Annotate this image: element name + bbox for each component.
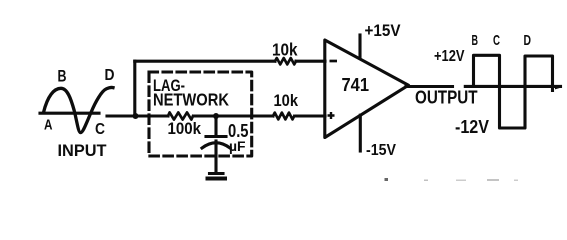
svg-text:10k: 10k: [274, 92, 299, 110]
svg-text:-12V: -12V: [455, 117, 489, 137]
svg-text:C: C: [493, 32, 500, 49]
svg-text:10k: 10k: [272, 40, 298, 60]
svg-text:µF: µF: [229, 138, 246, 154]
svg-text:741: 741: [342, 74, 370, 95]
svg-text:INPUT: INPUT: [58, 142, 107, 160]
svg-text:-15V: -15V: [366, 142, 397, 159]
svg-text:OUTPUT: OUTPUT: [415, 87, 478, 107]
svg-text:B: B: [58, 67, 67, 86]
svg-text:B: B: [472, 32, 479, 49]
svg-text:100k: 100k: [168, 119, 202, 138]
svg-text:C: C: [95, 121, 105, 138]
svg-text:D: D: [105, 67, 115, 84]
svg-text:+15V: +15V: [365, 22, 401, 40]
svg-text:A: A: [44, 118, 53, 134]
svg-text:D: D: [524, 32, 532, 49]
svg-text:+12V: +12V: [434, 48, 465, 65]
svg-text:NETWORK: NETWORK: [153, 90, 229, 110]
